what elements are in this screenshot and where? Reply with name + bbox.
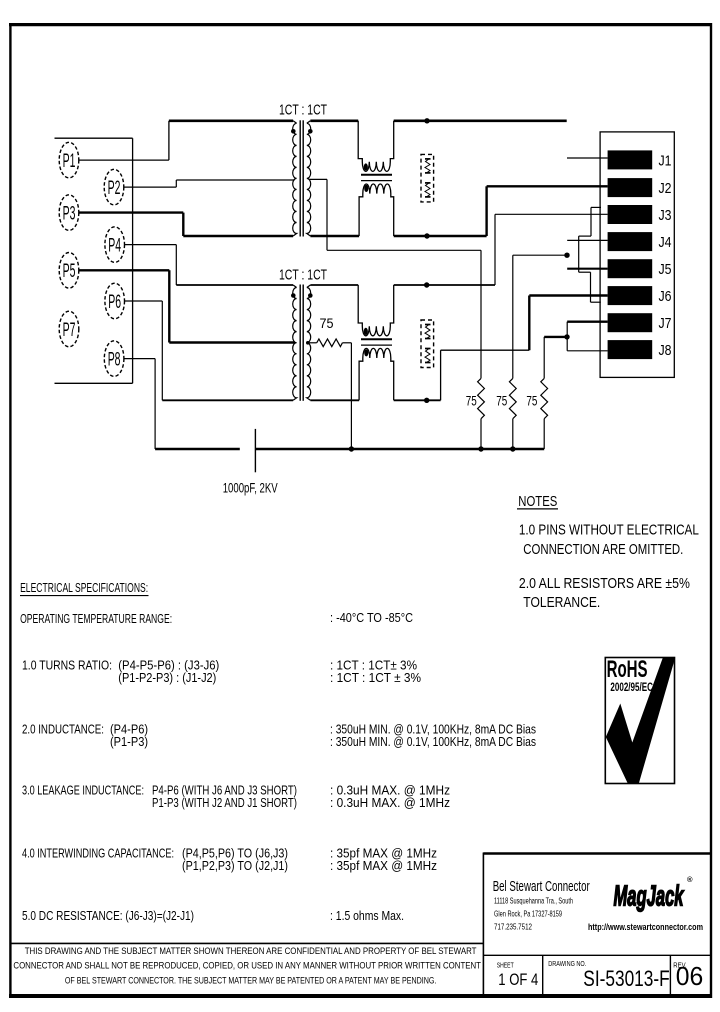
svg-text:®: ® (687, 875, 693, 884)
svg-text:3.0 LEAKAGE INDUCTANCE:: 3.0 LEAKAGE INDUCTANCE: (22, 782, 144, 797)
svg-text:Bel Stewart Connector: Bel Stewart Connector (493, 879, 590, 895)
svg-text:2002/95/EC: 2002/95/EC (610, 682, 653, 694)
svg-text:P1: P1 (63, 151, 76, 172)
svg-text:P6: P6 (108, 292, 121, 313)
svg-text:5.0 DC RESISTANCE: (J6-J3)=(J2: 5.0 DC RESISTANCE: (J6-J3)=(J2-J1) (22, 908, 194, 923)
svg-text:75: 75 (320, 315, 334, 331)
svg-text:P4: P4 (108, 236, 121, 257)
svg-text:1CT : 1CT: 1CT : 1CT (279, 102, 327, 118)
svg-text:Glen Rock, Pa 17327-8159: Glen Rock, Pa 17327-8159 (494, 909, 562, 919)
svg-text:1.0 TURNS RATIO:: 1.0 TURNS RATIO: (22, 657, 112, 672)
svg-text:TOLERANCE.: TOLERANCE. (523, 594, 600, 611)
svg-text:J7: J7 (659, 315, 672, 332)
svg-text:: 35pf MAX @ 1MHz: : 35pf MAX @ 1MHz (330, 858, 437, 873)
svg-text:P8: P8 (108, 350, 121, 371)
svg-text:J3: J3 (659, 207, 672, 224)
svg-text:(P1-P3): (P1-P3) (110, 734, 148, 749)
svg-text:CONNECTOR AND SHALL NOT BE REP: CONNECTOR AND SHALL NOT BE REPRODUCED, C… (13, 961, 481, 971)
svg-text:P5: P5 (63, 261, 76, 282)
svg-text:J4: J4 (659, 234, 672, 251)
svg-text:4.0 INTERWINDING CAPACITANCE:: 4.0 INTERWINDING CAPACITANCE: (22, 845, 174, 860)
svg-text:75: 75 (526, 392, 537, 408)
svg-text:: 350uH MIN. @ 0.1V, 100KHz, 8: : 350uH MIN. @ 0.1V, 100KHz, 8mA DC Bias (330, 734, 536, 749)
svg-text:THIS DRAWING AND THE SUBJECT M: THIS DRAWING AND THE SUBJECT MATTER SHOW… (25, 946, 477, 956)
svg-text:: 1CT : 1CT ± 3%: : 1CT : 1CT ± 3% (330, 670, 421, 685)
svg-text:SI-53013-F: SI-53013-F (583, 966, 669, 991)
svg-text:11118 Susquehanna Tra., South: 11118 Susquehanna Tra., South (494, 896, 573, 906)
svg-text:2.0 INDUCTANCE:: 2.0 INDUCTANCE: (22, 721, 104, 736)
svg-text:OPERATING TEMPERATURE RANGE:: OPERATING TEMPERATURE RANGE: (20, 611, 172, 626)
svg-text:MagJack: MagJack (614, 881, 685, 913)
svg-text:J1: J1 (659, 152, 672, 169)
svg-text:2.0 ALL RESISTORS ARE ±5%: 2.0 ALL RESISTORS ARE ±5% (519, 575, 690, 592)
svg-text:(P1,P2,P3) TO (J2,J1): (P1,P2,P3) TO (J2,J1) (182, 858, 288, 873)
svg-text:75: 75 (466, 392, 477, 408)
svg-text:(P1-P2-P3) : (J1-J2): (P1-P2-P3) : (J1-J2) (118, 670, 216, 685)
svg-text:1.0 PINS WITHOUT ELECTRICAL: 1.0 PINS WITHOUT ELECTRICAL (519, 521, 699, 538)
svg-text:: -40°C TO -85°C: : -40°C TO -85°C (330, 610, 413, 625)
svg-text:P2: P2 (108, 178, 121, 199)
svg-text:1 OF 4: 1 OF 4 (498, 970, 538, 989)
svg-text:J2: J2 (659, 180, 672, 197)
svg-text:SHEET: SHEET (497, 962, 515, 969)
svg-text:75: 75 (496, 392, 507, 408)
svg-text:RoHS: RoHS (607, 656, 648, 683)
svg-text:CONNECTION ARE OMITTED.: CONNECTION ARE OMITTED. (523, 541, 683, 558)
svg-text:717.235.7512: 717.235.7512 (494, 922, 532, 932)
svg-text:J5: J5 (659, 261, 672, 278)
svg-text:NOTES: NOTES (518, 493, 557, 510)
svg-text:1CT : 1CT: 1CT : 1CT (279, 267, 327, 283)
svg-text:ELECTRICAL SPECIFICATIONS:: ELECTRICAL SPECIFICATIONS: (20, 580, 148, 595)
svg-text:: 1.5 ohms Max.: : 1.5 ohms Max. (330, 908, 404, 923)
svg-text:P7: P7 (63, 320, 76, 341)
svg-text:J8: J8 (659, 342, 672, 359)
svg-text:1000pF, 2KV: 1000pF, 2KV (223, 481, 278, 496)
svg-text:http://www.stewartconnector.co: http://www.stewartconnector.com (588, 922, 703, 932)
svg-text:P3: P3 (63, 204, 76, 225)
svg-text:DRAWING NO.: DRAWING NO. (548, 961, 586, 968)
svg-text:OF BEL STEWART CONNECTOR. THE: OF BEL STEWART CONNECTOR. THE SUBJECT MA… (65, 975, 437, 985)
svg-text:P1-P3 (WITH J2 AND J1 SHORT): P1-P3 (WITH J2 AND J1 SHORT) (152, 795, 297, 810)
svg-text:: 0.3uH MAX. @ 1MHz: : 0.3uH MAX. @ 1MHz (330, 795, 450, 810)
svg-text:J6: J6 (659, 288, 672, 305)
svg-text:06: 06 (676, 961, 704, 991)
